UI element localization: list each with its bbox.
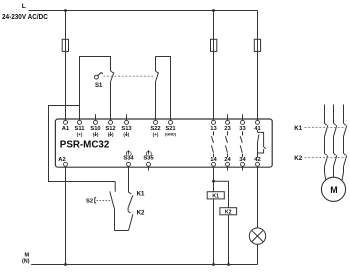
svg-text:14: 14: [210, 157, 217, 163]
svg-text:S35: S35: [143, 155, 154, 161]
svg-text:S1: S1: [95, 83, 103, 89]
svg-text:42: 42: [254, 157, 260, 163]
svg-text:K1: K1: [294, 125, 302, 132]
svg-text:S12: S12: [105, 126, 115, 132]
svg-text:24: 24: [224, 157, 231, 163]
wire 14 drop to N rail: [213, 166, 215, 264]
relay contact 33-34 (NO): [240, 131, 242, 157]
svg-text:PSR-MC32: PSR-MC32: [60, 139, 110, 150]
terminal S13: [126, 114, 128, 120]
fuse F3: [254, 39, 260, 51]
svg-text:23: 23: [224, 126, 231, 132]
indicator lamp H1: [249, 228, 265, 244]
switch S1 contact 1: [111, 71, 114, 120]
contactor K2 linkage (dashed): [305, 157, 345, 159]
terminal 41: [256, 120, 260, 124]
svg-text:S2: S2: [86, 199, 93, 205]
pushbutton S2 actuator (dashed link): [95, 197, 112, 203]
wire motor phase line 1: [325, 105, 328, 181]
svg-text:(+): (+): [77, 132, 83, 137]
terminal S21: [169, 120, 173, 124]
svg-text:): ): [112, 132, 114, 137]
terminal A2: [64, 162, 68, 166]
terminal 24: [226, 162, 230, 166]
terminal S34: [127, 162, 131, 166]
wire drop from L rail to terminal 13: [213, 11, 215, 121]
svg-text:S10: S10: [90, 126, 100, 132]
node junction K2 drop on N rail: [227, 263, 230, 266]
svg-text:M: M: [330, 185, 337, 195]
svg-text:34: 34: [239, 157, 246, 163]
motor M: [321, 177, 345, 201]
terminal 42: [256, 162, 260, 166]
svg-text:S11: S11: [75, 126, 86, 132]
svg-text:S34: S34: [123, 155, 134, 161]
wire S2 bottom to K2 contact: [115, 230, 129, 232]
contactor K1 linkage (dashed): [305, 127, 345, 129]
terminal 33: [242, 114, 244, 120]
svg-text:S13: S13: [121, 126, 132, 132]
svg-text:33: 33: [239, 126, 246, 132]
switch S1 contact 2: [156, 57, 159, 82]
svg-text:(+): (+): [153, 132, 159, 137]
svg-text:A2: A2: [58, 157, 65, 163]
wire tap from S11 riser to S2 branch: [49, 106, 116, 182]
svg-text:K1: K1: [212, 193, 219, 199]
wire lamp to N rail: [257, 244, 259, 264]
terminal A1: [64, 120, 68, 124]
relay contact 23-24 (NO): [225, 131, 227, 157]
contact K1 (NC feedback): [128, 192, 133, 208]
terminal S12: [109, 120, 113, 124]
wire S1 mechanical linkage (dashed): [103, 75, 155, 77]
switch S1 actuator: [95, 72, 103, 79]
node junction on L rail above A1: [64, 9, 67, 12]
wire motor phase line 2: [334, 105, 337, 178]
svg-text:24-230V AC/DC: 24-230V AC/DC: [2, 13, 48, 21]
svg-text:(N): (N): [22, 258, 30, 264]
svg-text:(GND): (GND): [165, 133, 177, 137]
wire S22 riser and top run of channel 2: [155, 82, 157, 121]
relay box PSR-MC32: [55, 119, 272, 167]
label M (N): [22, 252, 30, 264]
node junction on 14 drop: [212, 180, 215, 183]
wire L supply rail: [29, 10, 258, 12]
wire motor phase line 3: [342, 105, 347, 181]
terminal S35: [147, 162, 151, 166]
coil K1: [207, 192, 224, 199]
svg-text:K1: K1: [137, 190, 145, 197]
terminal S22: [154, 120, 158, 124]
terminal 13: [212, 120, 216, 124]
node junction A2 on N rail: [64, 263, 67, 266]
relay contact 13-14 (NO): [211, 131, 213, 157]
wire 42 drop to lamp: [257, 166, 259, 228]
wire top run to S21: [156, 57, 171, 121]
wire link from 14 drop to K2 coil branch: [214, 181, 229, 264]
contact K2 (NC feedback): [128, 208, 133, 231]
svg-text:S22: S22: [150, 126, 160, 132]
svg-text:K2: K2: [137, 210, 145, 217]
terminal 14: [212, 162, 216, 166]
wire S34 stub down: [128, 166, 130, 192]
fuse F1: [62, 39, 68, 51]
svg-text:K2: K2: [294, 155, 302, 162]
relay contact 41-42 (NC): [258, 130, 266, 158]
wire A2 to N rail: [65, 166, 67, 264]
svg-text:L: L: [22, 3, 26, 10]
svg-text:S21: S21: [165, 126, 176, 132]
wire N rail: [31, 264, 257, 266]
svg-text:A1: A1: [62, 126, 70, 132]
pushbutton S2 (NC): [110, 182, 115, 231]
node junction 14 drop on N rail: [212, 263, 215, 266]
svg-text:K2: K2: [225, 209, 232, 215]
coil K2: [220, 208, 237, 215]
svg-text:13: 13: [210, 126, 217, 132]
svg-text:): ): [128, 132, 130, 137]
fuse F2: [211, 39, 217, 51]
svg-text:): ): [97, 132, 99, 137]
wire drop from L rail to A1: [65, 11, 67, 121]
terminal 34: [241, 162, 245, 166]
node junction on L rail above 13: [212, 9, 215, 12]
wire S11 riser and top run of channel 1: [80, 57, 111, 121]
terminal S11: [78, 120, 82, 124]
wire drop from L rail corner to terminal 41: [257, 11, 259, 121]
terminal 23: [227, 114, 229, 120]
terminal S10: [95, 114, 97, 120]
